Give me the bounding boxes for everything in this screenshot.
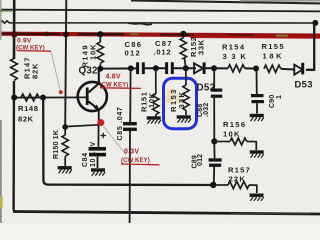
svg-text:R154: R154 xyxy=(222,43,245,52)
svg-text:C84: C84 xyxy=(82,152,89,167)
svg-text:82K: 82K xyxy=(18,115,34,124)
capacitor C88 xyxy=(211,68,223,141)
resistor R156 xyxy=(214,138,256,150)
resistor R154 xyxy=(214,65,256,72)
node dot base-left xyxy=(11,95,17,101)
ground (C90) xyxy=(250,116,264,122)
node dot base-mid xyxy=(40,95,46,101)
resistor R151 xyxy=(153,68,159,116)
wire top line A xyxy=(131,1,320,4)
svg-text:C85 .047: C85 .047 xyxy=(117,106,124,140)
svg-text:33K: 33K xyxy=(177,91,186,109)
svg-text:.012: .012 xyxy=(154,48,172,57)
ground (R153) xyxy=(177,117,191,123)
ink blob on rail xyxy=(44,32,49,37)
capacitor C84 electrolytic xyxy=(89,125,107,169)
node dot collector xyxy=(97,66,103,72)
ground (R156) xyxy=(250,152,264,158)
ground (C84) xyxy=(91,170,105,176)
svg-text:10K: 10K xyxy=(89,44,98,60)
resistor R147 xyxy=(11,59,18,81)
node dot C88 top xyxy=(211,65,217,71)
wire top line C xyxy=(0,21,316,23)
highlight box (blue) around R153 xyxy=(164,78,197,129)
ground (R151) xyxy=(147,118,161,124)
svg-text:22K: 22K xyxy=(229,175,247,184)
node dot R156/C89 xyxy=(211,138,217,144)
svg-text:0.9V: 0.9V xyxy=(17,37,32,44)
junction blob at red rail x14 xyxy=(12,32,17,38)
red rail dark overlay segments xyxy=(0,32,288,36)
transistor Q32 xyxy=(78,70,107,125)
wire C87 to D52 xyxy=(173,67,196,69)
ground (R150) xyxy=(58,168,72,174)
wire base rail y97.5 xyxy=(14,96,87,98)
capacitor C89 xyxy=(209,141,222,185)
wire top line B xyxy=(0,10,320,12)
node junction on line C xyxy=(312,20,318,26)
wire ink blobs on line C xyxy=(128,23,152,25)
svg-text:012: 012 xyxy=(125,49,142,58)
resistor R149 xyxy=(97,35,104,69)
node dot R152 on rail xyxy=(180,31,186,37)
svg-text:33K: 33K xyxy=(197,39,206,55)
resistor R148 xyxy=(21,94,39,101)
resistor R155 xyxy=(264,65,295,72)
node dot R150 top xyxy=(62,124,68,130)
svg-text:R148: R148 xyxy=(18,104,39,113)
node dot R149 on rail xyxy=(97,31,103,37)
svg-text:012: 012 xyxy=(197,154,204,166)
svg-text:3 3 K: 3 3 K xyxy=(223,52,248,61)
node dot C85 top xyxy=(128,65,134,71)
svg-text:(CW KEY): (CW KEY) xyxy=(121,158,150,164)
svg-text:10 10V: 10 10V xyxy=(90,141,97,167)
wire vertical x43.5 down to lower rail xyxy=(43,98,213,186)
capacitor C85 xyxy=(123,68,137,223)
svg-text:D52: D52 xyxy=(197,83,216,94)
wire emitter link y125.5 xyxy=(65,125,99,127)
capacitor C90 xyxy=(251,69,264,114)
wire left vertical bus x14 xyxy=(13,0,16,59)
resistor R153 xyxy=(183,68,189,115)
node dot R152/R153 xyxy=(183,65,189,71)
svg-text:R155: R155 xyxy=(262,42,285,51)
annotation 0.9V (CW KEY) xyxy=(16,37,63,94)
svg-text:1: 1 xyxy=(276,95,283,99)
svg-text:R156: R156 xyxy=(223,120,246,129)
resistor R150 xyxy=(64,127,66,135)
node dot R157 xyxy=(210,182,216,188)
capacitor C86 xyxy=(136,62,145,74)
annotation 4.8V (CW KEY) xyxy=(100,73,142,88)
resistor R157 xyxy=(213,181,256,193)
svg-text:D53: D53 xyxy=(295,79,313,90)
wire vertical x66 from top to R150 node xyxy=(65,0,66,127)
svg-text:4.8V: 4.8V xyxy=(106,73,121,80)
svg-text:R150 1K: R150 1K xyxy=(51,129,60,159)
svg-text:18K: 18K xyxy=(263,52,285,61)
svg-text:82K: 82K xyxy=(31,63,40,79)
diode D53 xyxy=(294,23,314,75)
annotation 0.3V (CW KEY) xyxy=(97,119,159,165)
svg-text:0.3V: 0.3V xyxy=(124,148,139,155)
wire main signal y68.5 xyxy=(100,67,137,69)
diode D52 xyxy=(194,62,214,74)
node junction x66 on rail xyxy=(63,31,69,37)
wire lower rail y185 handled above; bottom rail y211 xyxy=(13,212,320,215)
svg-text:R157: R157 xyxy=(228,166,251,175)
resistor R152 xyxy=(180,34,186,68)
ground (R157) xyxy=(250,195,264,201)
svg-text:C90: C90 xyxy=(269,95,276,108)
wire between C86 and C87 xyxy=(144,67,165,69)
svg-text:10K: 10K xyxy=(223,130,241,139)
highlighter flecks on R153 label xyxy=(167,89,174,103)
svg-text:.032: .032 xyxy=(203,103,210,117)
svg-text:10K: 10K xyxy=(147,92,156,108)
red supply rail xyxy=(0,32,320,38)
node dot R151 top xyxy=(153,65,159,71)
capacitor C87 xyxy=(165,62,174,74)
node dot C90 top xyxy=(253,66,259,72)
